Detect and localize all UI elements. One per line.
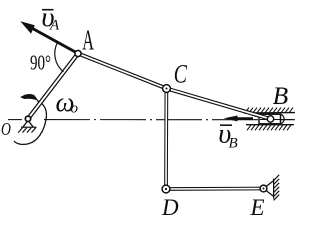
svg-text:D: D [161,195,179,220]
link CD (double line) [164,89,168,190]
crank link OA (double line) [28,54,78,119]
svg-text:A: A [49,18,60,34]
centerline O-B (dash-dot axis) [8,119,295,121]
coupler link A-C-B (double line) [78,54,271,120]
svg-text:B: B [273,82,289,110]
pivot triangle at E [264,181,274,197]
svg-text:E: E [250,195,265,220]
pivot base triangle at O [23,121,34,128]
omega arc (rotation arrow around O) [14,101,46,145]
svg-text:B: B [229,136,238,152]
pin joint A [75,50,81,56]
svg-text:A: A [82,25,94,57]
label vA [41,3,60,34]
svg-text:o: o [71,101,79,117]
svg-text:90°: 90° [30,51,51,75]
velocity vector vA (arrow up-left, perpendicular to OA) [20,21,78,53]
link DE (double line) [166,187,264,191]
label vB [218,118,237,151]
svg-text:C: C [174,59,188,88]
pin joint B [267,116,273,122]
svg-text:O: O [1,120,11,139]
90 degree angle arc at A [55,43,64,72]
velocity vector vB (arrow pointing left) [224,116,254,122]
hatching below bottom rail [247,125,291,130]
slider guide bottom rail [246,124,294,126]
omega arrowhead [21,94,38,100]
slider block at B [259,114,293,124]
coupler end inside slider [250,113,271,119]
hatching above top rail [245,108,293,113]
slider guide top rail [244,112,295,114]
pin joint C [163,85,171,93]
pin joint E [260,185,267,192]
pin joint O [25,116,30,121]
label omega0 [56,87,79,117]
ground hatching at O [18,127,36,132]
pin joint D [162,185,170,193]
ground hatching at E [274,175,280,201]
